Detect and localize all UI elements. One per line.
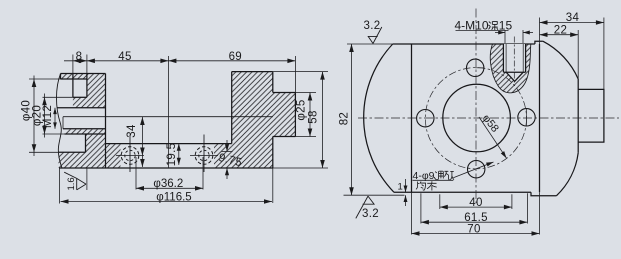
arrow phi36.2 left (136, 186, 144, 191)
arrow 40 right (504, 205, 512, 210)
bottom-right flange arc (557, 153, 579, 196)
M10 hole right major wall (525, 44, 527, 72)
svg-text:φ36.2: φ36.2 (153, 178, 183, 190)
hatch: flange cross block (232, 72, 296, 168)
hatch: hub bottom-left band (59, 152, 86, 168)
ext line right at x=295.4 (294, 56, 296, 93)
surface finish 3.2 bottom symbol (356, 196, 374, 218)
arrow 34 bottom (140, 159, 145, 167)
right notch box (578, 89, 604, 142)
top-right flange arc (543, 41, 578, 79)
svg-text:M12: M12 (42, 105, 54, 128)
arrow 8 right (79, 59, 87, 64)
step top extension (295, 92, 316, 94)
dim 34 line (141, 117, 143, 167)
thread end vertical (62, 117, 64, 129)
ext line keyway right above (86, 55, 88, 74)
keyway bottom (73, 96, 87, 98)
hatch: web left patch (106, 144, 121, 168)
top step ledge (535, 41, 543, 44)
svg-text:15: 15 (499, 19, 513, 33)
dim 61.5 ext right (526, 193, 528, 223)
dim 22R ext mid (577, 30, 579, 79)
bottom-right step (531, 192, 557, 195)
svg-text:3.2: 3.2 (362, 208, 379, 220)
flange right lower edge (272, 137, 274, 169)
arrow 22R left (540, 32, 548, 37)
arrow phi9 leader (486, 160, 494, 166)
arrow dim1 up (404, 195, 408, 202)
arrow 34 mid (140, 148, 145, 156)
boss left edge (411, 44, 413, 192)
phi20 top ext line (43, 96, 73, 98)
bore circle (443, 84, 511, 152)
arrow M12 bottom (53, 122, 57, 128)
dim 82 bottom ext (344, 194, 405, 196)
thread bottom line (63, 128, 106, 130)
step top edge (273, 92, 296, 94)
surface finish 1.6 ext line (86, 168, 88, 190)
dim 58 dim line (322, 72, 324, 168)
dim 1 lower arrow stem (405, 195, 407, 206)
keyway left wall (72, 74, 74, 98)
M12 dim line (54, 108, 56, 129)
step bottom edge (273, 136, 296, 138)
label 4-M10 underline (456, 30, 509, 32)
label 4-phi9 leader (453, 162, 493, 178)
svg-text:40: 40 (469, 197, 482, 209)
dim 61.5 line (421, 221, 528, 223)
svg-text:61.5: 61.5 (464, 212, 488, 224)
thread top line across middle (63, 116, 273, 118)
bolt circle centerline (425, 68, 526, 169)
glyph kong (444, 171, 454, 179)
M10 hole left major wall (502, 44, 504, 72)
dim 9.75 upper segment (226, 140, 228, 152)
arrow 61.5 right (519, 220, 527, 225)
arrow 40 left (440, 205, 448, 210)
arrow dim1 down (404, 186, 408, 193)
bore bottom line (65, 133, 106, 135)
arrow phi58 leader (501, 151, 508, 159)
dim 40 line (440, 206, 512, 208)
M10 tapped hole white (503, 44, 525, 81)
phi116.5 dim line (61, 201, 273, 203)
M10 hole left minor wall (505, 44, 507, 72)
flange right upper edge (272, 72, 274, 93)
dim 61.5 ext left (420, 193, 422, 223)
arrow 58 bottom (320, 160, 325, 168)
svg-text:34: 34 (126, 124, 138, 138)
arrow 70 right (532, 231, 540, 236)
dim 22R line (540, 34, 579, 36)
bottom flat (394, 191, 531, 193)
hole 1 horizontal centerline (116, 155, 144, 157)
arrow 15 right (523, 31, 530, 35)
svg-text:4-M10: 4-M10 (455, 19, 489, 33)
arrow phi116.5 left (61, 199, 69, 204)
hub top face (61, 73, 106, 75)
dim 15 line left tail (495, 32, 505, 34)
hole 2 horizontal centerline (190, 155, 218, 157)
arrow phi40 top (32, 79, 37, 87)
left flange arc (364, 44, 394, 192)
ext line keyway left above (72, 55, 74, 74)
arrow 9.75 down (225, 144, 229, 151)
arrow 45 right (160, 59, 168, 64)
flange left edge (231, 72, 233, 144)
dim 15 line right tail (523, 32, 533, 34)
dim 34R line (540, 22, 604, 24)
arrow phi116.5 right (264, 199, 272, 204)
arrow 69 left (168, 59, 176, 64)
arrow phi36.2 right (195, 186, 203, 191)
svg-text:34: 34 (566, 12, 580, 24)
hub top-left stub (60, 74, 62, 80)
label phi58 leader (479, 117, 507, 158)
dim 82 top ext (347, 43, 393, 45)
hole 1 vertical centerline (129, 135, 131, 173)
arrow phi20 top (42, 97, 47, 105)
step bottom extension (295, 136, 316, 138)
phi116.5 right ext (272, 168, 274, 203)
dim 19.5 line (178, 144, 180, 165)
arrow phi25 top (308, 93, 313, 101)
hatch: band below keyway (73, 97, 87, 107)
bolt hole right (518, 109, 535, 126)
hub right edge (105, 74, 107, 169)
arrow 15 left (498, 31, 505, 35)
bolt hole left (417, 110, 434, 127)
dim 34R ext left (539, 18, 541, 45)
arrow 58 top (320, 72, 325, 80)
arrow 69 right (287, 59, 295, 64)
hatch: hub top strip (61, 74, 87, 80)
M10 local section blob (490, 44, 531, 93)
svg-text:4-φ9: 4-φ9 (413, 170, 435, 182)
boss right edge (539, 44, 541, 192)
arrow 45 left (87, 59, 95, 64)
arrow 8 left (73, 59, 81, 64)
keyway strip bottom edge (61, 78, 87, 80)
dim 70 ext right (539, 192, 541, 234)
dim 34R ext right (603, 18, 605, 90)
surface finish 1.6 symbol (64, 172, 86, 190)
arrow 22R right (570, 32, 578, 37)
phi40 bottom ext line (29, 151, 59, 153)
horizontal centerline (358, 117, 619, 119)
svg-text:8: 8 (76, 51, 83, 63)
M10 hole right minor wall (522, 44, 524, 72)
arrow phi20 bottom (42, 126, 47, 134)
glyph bu (427, 181, 437, 190)
bottom line extension right (273, 167, 328, 169)
arrow phi40 bottom (32, 144, 37, 152)
svg-text:70: 70 (467, 223, 480, 235)
phi40 top ext line (29, 78, 61, 80)
arrow 82 bottom (349, 187, 354, 195)
svg-text:19.5: 19.5 (166, 143, 178, 167)
flange top face (232, 71, 273, 73)
top dimension line 8/45/69 (64, 60, 295, 62)
svg-text:58: 58 (308, 110, 320, 123)
top edge (393, 43, 535, 45)
dim 15 left ext (504, 30, 506, 43)
right hole vertical tick (526, 109, 528, 126)
arrow 34R left (540, 20, 548, 25)
hole 2 vertical centerline (203, 135, 205, 173)
arrow 9.75 up (225, 168, 229, 175)
dim 40 ext left (439, 194, 441, 209)
step right edge (294, 93, 296, 137)
ext line mid at x=168.4 (167, 56, 169, 168)
hatch: hub upper block (87, 74, 106, 108)
dim 9.75 ext tick (222, 151, 233, 153)
M10 drill point (506, 72, 523, 81)
label 4-phi9 underline (413, 179, 454, 181)
arrow 34 top (140, 117, 145, 125)
vertical centerline (475, 9, 477, 204)
top hole half tick (475, 67, 484, 69)
dim 70 ext left (411, 192, 413, 234)
hatch: hub lower block (86, 134, 106, 168)
dim 1 upper arrow stem (405, 179, 407, 192)
svg-text:3.2: 3.2 (364, 20, 381, 32)
part bottom line (59, 167, 273, 169)
bolt hole top (467, 59, 484, 76)
svg-text:45: 45 (118, 51, 131, 63)
hole 1 dashed circle (121, 147, 139, 165)
arrow M12 top (53, 108, 57, 114)
arrow 82 top (349, 44, 354, 52)
arrow 34R right (596, 20, 604, 25)
M10 hole centerline (513, 37, 515, 87)
svg-text:φ116.5: φ116.5 (156, 191, 191, 203)
arrow phi25 bottom (308, 129, 313, 137)
arrow 61.5 left (421, 220, 429, 225)
phi20 bottom ext line (43, 133, 65, 135)
svg-text:φ40: φ40 (20, 100, 32, 121)
hole 2 inner dashed circle (199, 150, 209, 160)
bolt hole bottom (468, 161, 485, 178)
hole 1 inner dashed circle (125, 150, 135, 160)
dim 70 line (412, 233, 540, 235)
lower notch right wall (85, 134, 87, 152)
hatch: band below thread (66, 129, 106, 134)
arrow 19.5 top (177, 144, 181, 151)
hole 2 dashed circle (195, 147, 213, 165)
web top line (106, 143, 232, 145)
hatch: web right patch (214, 144, 232, 168)
M10 hole bottom line (503, 71, 525, 73)
phi25 dim line (309, 93, 311, 137)
lower notch bottom (59, 151, 86, 153)
break curve (57, 74, 63, 169)
keyway right wall (86, 74, 88, 98)
phi40 dim line (33, 76, 35, 157)
flange top extension to 58-dim (273, 71, 328, 73)
phi36.2 left ext (135, 157, 137, 190)
svg-text:1.6: 1.6 (66, 177, 77, 190)
dim 40 ext right (511, 194, 513, 209)
right flange edge (577, 79, 579, 153)
svg-text:22: 22 (554, 25, 567, 37)
dim 15 right ext (522, 30, 524, 43)
svg-text:1: 1 (398, 182, 403, 193)
glyph shen (488, 22, 498, 31)
glyph tong (434, 171, 443, 180)
phi20 dim line (44, 94, 46, 138)
arrow 70 left (412, 231, 420, 236)
surface finish 3.2 top symbol (368, 27, 382, 44)
svg-text:82: 82 (338, 112, 350, 125)
dim 9.75 lower segment (226, 168, 228, 179)
svg-text:φ25: φ25 (296, 99, 308, 120)
phi36.2 dim line (136, 187, 203, 189)
arrow 19.5 bottom (177, 158, 181, 165)
dim 82 line (351, 44, 353, 195)
glyph jun (416, 181, 425, 190)
phi116.5 left ext (59, 168, 61, 204)
phi36.2 right ext (202, 157, 204, 190)
svg-text:69: 69 (229, 51, 242, 63)
bore top line (57, 107, 106, 109)
